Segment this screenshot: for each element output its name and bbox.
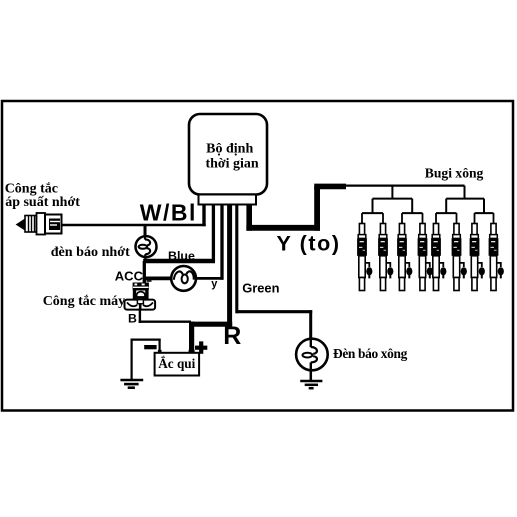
bus drop right xyxy=(464,186,466,199)
wire Green horizontal xyxy=(236,310,313,313)
wire Y bar horizontal xyxy=(246,225,320,231)
glow plug G3 xyxy=(397,213,412,290)
wire pin5 Green vertical xyxy=(235,205,238,314)
wire W/Bl horizontal run xyxy=(62,224,206,227)
svg-text:Blue: Blue xyxy=(168,249,195,263)
svg-text:Y (to): Y (to) xyxy=(277,231,341,255)
ground battery xyxy=(120,380,143,388)
ground lamp3 xyxy=(300,381,322,388)
lamp L2 (Blue/y lamp) xyxy=(171,266,196,291)
wire Green down to lamp3 xyxy=(309,310,312,339)
level2 right wire xyxy=(446,198,484,200)
svg-text:Bugi xông: Bugi xông xyxy=(425,165,484,180)
battery Ac qui xyxy=(155,353,200,376)
wire Y vertical up xyxy=(314,186,320,230)
svg-text:Đèn báo xông: Đèn báo xông xyxy=(333,346,408,361)
wire pin3 vertical xyxy=(220,205,223,280)
wire R down to battery plus xyxy=(189,322,194,353)
svg-text:Ắc qui: Ắc qui xyxy=(158,356,195,371)
wire lamp2 right to pin3 xyxy=(196,277,224,280)
label minus xyxy=(144,345,156,349)
svg-text:đèn báo nhớt: đèn báo nhớt xyxy=(51,244,130,260)
wire R bend horizontal xyxy=(189,322,232,327)
oil pressure switch xyxy=(17,213,62,235)
glow plug G1 xyxy=(357,213,372,290)
svg-text:W/Bl: W/Bl xyxy=(140,199,197,225)
wire pin4 R vertical xyxy=(227,205,232,327)
battery minus wire xyxy=(131,339,161,380)
battery plus nub xyxy=(189,350,195,353)
level3 pair wires xyxy=(362,212,494,214)
bus drop left xyxy=(391,186,393,199)
svg-text:Bộ định: Bộ định xyxy=(206,141,253,156)
glow plug G5 xyxy=(431,213,446,290)
wire B to battery junction xyxy=(139,310,191,323)
lamp L1 den bao nhot xyxy=(136,234,157,261)
svg-text:B: B xyxy=(128,312,137,326)
glow plug G7 xyxy=(470,213,485,290)
wire Y top horizontal thick xyxy=(314,184,346,190)
wire pin6 Y vertical xyxy=(246,205,252,231)
wire pin1 vertical xyxy=(202,205,205,227)
wire lamp3 to ground xyxy=(310,370,313,381)
svg-text:thời gian: thời gian xyxy=(205,156,258,171)
label Cong tac ap suat nhot xyxy=(5,181,81,210)
lamp L3 den bao xong xyxy=(296,338,328,371)
glow plug G8 xyxy=(489,213,504,290)
wire pin2 vertical xyxy=(212,205,215,263)
level2 end drops xyxy=(373,199,485,214)
glow plug G6 xyxy=(452,213,467,290)
level2 left wire xyxy=(373,198,413,200)
wire lamp1 top tap xyxy=(144,226,147,237)
wire ACC branch to lamp2 xyxy=(143,276,172,280)
svg-text:ACC: ACC xyxy=(115,268,144,283)
label plus xyxy=(195,341,207,353)
timer box U1 xyxy=(189,114,267,195)
svg-text:R: R xyxy=(223,322,241,350)
battery minus nub xyxy=(158,350,162,353)
ignition switch (cong tac may) xyxy=(125,281,156,310)
svg-text:áp suất nhớt: áp suất nhớt xyxy=(5,195,80,210)
wire ACC vertical xyxy=(143,261,146,283)
glow plug G2 xyxy=(378,213,393,290)
glow plug bus wire xyxy=(346,184,465,186)
border frame xyxy=(2,101,513,411)
svg-text:Công tắc máy: Công tắc máy xyxy=(43,294,125,309)
timer connector base xyxy=(199,195,257,205)
glow plug G4 xyxy=(418,213,433,290)
svg-text:Green: Green xyxy=(242,280,279,295)
wire Blue bar (lamp1 bottom to pin2) xyxy=(143,259,215,264)
svg-text:y: y xyxy=(211,278,218,290)
